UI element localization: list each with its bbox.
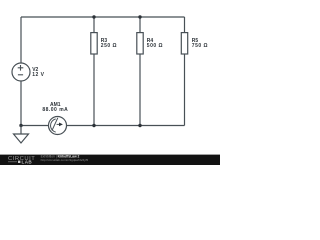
resistor R3 — [91, 33, 97, 54]
ammeter AM1 — [49, 117, 67, 135]
svg-text:12 V: 12 V — [32, 72, 44, 78]
svg-text:500 Ω: 500 Ω — [147, 43, 163, 49]
svg-text:750 Ω: 750 Ω — [192, 43, 208, 49]
wire R3 vertical branch — [93, 17, 95, 126]
wire R5 vertical branch — [184, 17, 186, 126]
ground — [14, 126, 29, 144]
junction dot bottom of R3 — [92, 124, 95, 127]
resistor R4 — [137, 33, 143, 54]
junction dot ground node — [19, 124, 22, 127]
wire top rail node A — [21, 16, 185, 18]
wire left vertical V2 branch — [20, 17, 22, 126]
wire bottom rail through ammeter — [21, 125, 185, 127]
resistor R5 — [181, 33, 187, 54]
junction dot top of R3 — [92, 15, 95, 18]
wire R4 vertical branch — [139, 17, 141, 126]
junction dot bottom of R4 — [138, 124, 141, 127]
svg-text:88.00 mA: 88.00 mA — [42, 107, 68, 113]
junction dot top of R4 — [138, 15, 141, 18]
watermark logo CIRCUIT LAB — [8, 156, 35, 164]
watermark bar — [0, 155, 220, 165]
svg-text:250 Ω: 250 Ω — [101, 43, 117, 49]
svg-text:http://circuitlab.com/c/2gqkwh: http://circuitlab.com/c/2gqkwhfe5yf5 — [41, 158, 89, 162]
voltage source V2 — [12, 63, 30, 81]
svg-text:LAB: LAB — [22, 159, 33, 164]
